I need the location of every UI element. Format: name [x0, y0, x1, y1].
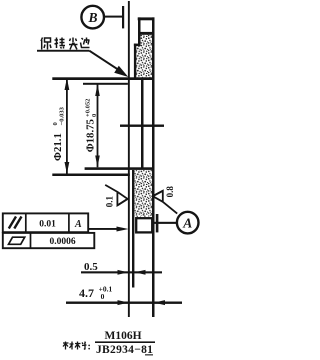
svg-text:A: A [74, 219, 82, 230]
svg-text:0: 0 [91, 114, 98, 117]
svg-text:A: A [182, 215, 192, 230]
svg-text:M106H: M106H [104, 330, 141, 342]
svg-text:0.0006: 0.0006 [49, 237, 75, 247]
svg-text:0.5: 0.5 [84, 261, 98, 273]
svg-text:Φ18.75: Φ18.75 [85, 119, 97, 152]
svg-text:B: B [87, 10, 97, 25]
svg-text:Φ21.1: Φ21.1 [52, 133, 64, 161]
svg-text:0.01: 0.01 [39, 220, 56, 230]
svg-text:0.1: 0.1 [104, 195, 114, 207]
svg-text:JB2934−81: JB2934−81 [96, 344, 153, 356]
svg-text::: : [88, 341, 91, 352]
svg-text:0: 0 [101, 292, 105, 301]
svg-text:0.8: 0.8 [165, 186, 175, 198]
svg-text:−0.033: −0.033 [59, 106, 66, 125]
svg-text:4.7: 4.7 [79, 286, 94, 300]
